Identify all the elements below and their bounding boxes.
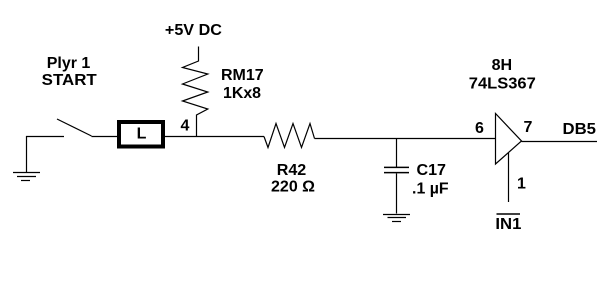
- svg-text:4: 4: [181, 118, 190, 135]
- resistor R42: [264, 124, 315, 148]
- svg-text:C17: C17: [417, 162, 447, 179]
- svg-text:220 Ω: 220 Ω: [271, 179, 315, 196]
- buffer U1 74LS367: [496, 114, 522, 165]
- resistor RM17: [183, 47, 208, 137]
- node IN1 (active low): [495, 214, 521, 233]
- wire buffer to DB5: [522, 141, 598, 143]
- label RM17 1Kx8: [221, 67, 264, 102]
- svg-text:1Kx8: 1Kx8: [223, 85, 261, 102]
- svg-text:Plyr 1: Plyr 1: [47, 55, 91, 72]
- svg-text:.1 µF: .1 µF: [412, 181, 449, 198]
- capacitor C17: [384, 138, 409, 214]
- wire L box to R42: [165, 136, 264, 138]
- svg-text:RM17: RM17: [221, 67, 264, 84]
- label 8H 74LS367: [469, 57, 536, 93]
- svg-text:74LS367: 74LS367: [469, 76, 536, 93]
- wire switch to L box: [92, 136, 118, 138]
- svg-text:DB5: DB5: [563, 121, 597, 138]
- label Plyr 1 START: [42, 55, 97, 89]
- svg-text:7: 7: [524, 119, 533, 136]
- ground (below C17): [383, 215, 410, 222]
- svg-text:1: 1: [517, 176, 526, 193]
- svg-text:+5V DC: +5V DC: [165, 22, 222, 39]
- switch SW (Plyr 1 START): [57, 119, 92, 136]
- wire enable pin 1: [508, 153, 510, 202]
- label R42 220 Ohm: [271, 162, 315, 196]
- wire ground to switch: [26, 136, 64, 138]
- svg-text:R42: R42: [277, 162, 307, 179]
- label C17 .1 uF: [412, 162, 449, 198]
- svg-text:8H: 8H: [492, 57, 513, 74]
- lamp L box: [119, 122, 163, 147]
- svg-text:START: START: [42, 72, 97, 89]
- svg-text:IN1: IN1: [495, 216, 521, 233]
- svg-text:L: L: [137, 126, 147, 143]
- wire R42 to buffer: [315, 138, 496, 140]
- ground (left): [13, 136, 40, 181]
- svg-text:6: 6: [475, 120, 484, 137]
